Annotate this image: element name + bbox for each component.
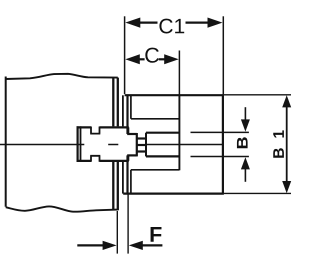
flange gap line lower — [122, 162, 124, 194]
pinion cap front edge — [76, 126, 78, 162]
dim C left arrow — [125, 54, 140, 64]
hub counterbore lower vertical — [130, 170, 132, 194]
hub recess top line — [131, 118, 180, 120]
dim C stub right — [159, 58, 168, 60]
bore top line — [146, 132, 179, 134]
motor face line 2 upper — [117, 78, 119, 127]
hub bottom extension line — [224, 192, 291, 194]
pinion top edge — [77, 126, 129, 128]
spline tooth bottom — [137, 150, 146, 152]
hub right edge — [222, 95, 224, 193]
dim B extension top — [191, 131, 249, 133]
pinion top groove — [90, 127, 100, 134]
spline tooth middle — [137, 144, 146, 146]
hub top edge — [125, 94, 224, 96]
pinion tenon top edge — [127, 133, 137, 135]
hub top extension line — [224, 94, 291, 96]
dim F left line — [77, 244, 103, 246]
dim C1 right arrow — [208, 18, 223, 28]
pinion tenon end face — [136, 133, 138, 156]
hub left face lower — [126, 155, 128, 193]
dim C1 line left — [140, 22, 158, 24]
hub left face upper — [126, 95, 128, 134]
hub recess bottom line — [131, 169, 180, 171]
label B1 — [273, 130, 284, 157]
dim C1 right extension — [222, 16, 224, 94]
pinion bottom groove — [90, 156, 100, 162]
dim F left arrow — [103, 241, 117, 250]
dim F left extension — [116, 211, 118, 254]
centerline — [0, 144, 223, 146]
label F — [151, 227, 162, 242]
dim B up arrow — [241, 157, 250, 169]
dim F right arrow — [129, 241, 143, 250]
label C — [145, 48, 159, 63]
spline tooth top — [137, 137, 146, 139]
hub bottom edge — [123, 193, 224, 195]
motor face line 1 upper — [112, 78, 114, 127]
dim F right line — [142, 244, 163, 246]
dim C right extension — [178, 51, 180, 96]
motor body left edge — [5, 77, 7, 207]
bore bottom line — [146, 155, 179, 157]
pinion step face — [127, 127, 129, 160]
dim B down arrow — [241, 119, 250, 131]
dim B1 down arrow — [282, 181, 291, 193]
dim B down arrow tail — [244, 107, 246, 120]
dim B extension bottom — [191, 156, 249, 158]
dim C1 line right — [186, 22, 209, 24]
bore sleeve left edge — [145, 133, 147, 157]
motor body bottom break edge — [6, 206, 118, 211]
dim C stub left — [139, 58, 145, 60]
pinion tenon bottom edge — [127, 154, 137, 156]
flange gap line upper — [122, 95, 124, 126]
motor body top break edge — [6, 74, 118, 79]
label B — [237, 137, 248, 148]
pinion cap inner line — [80, 126, 82, 162]
dim B1 up arrow — [282, 95, 291, 107]
pinion bottom edge — [77, 160, 129, 162]
dim B up arrow tail — [244, 169, 246, 182]
dim C1 left extension — [124, 16, 126, 94]
bore depth line — [178, 95, 180, 170]
dim B1 line — [286, 107, 288, 183]
dim C1 left arrow — [125, 18, 140, 28]
motor face line 1 lower — [112, 162, 114, 210]
dim C right arrow — [164, 54, 179, 64]
motor face line 2 lower — [117, 162, 119, 211]
hub counterbore upper vertical — [130, 95, 132, 119]
dim F right extension — [127, 194, 129, 254]
label C1 — [159, 19, 184, 34]
